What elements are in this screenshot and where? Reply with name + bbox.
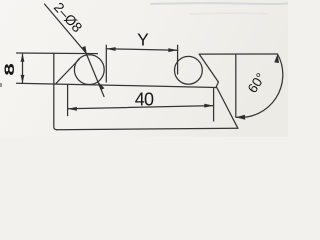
dim Y line	[106, 49, 177, 50]
arrowhead dim 40 left	[68, 107, 77, 111]
bottom edge	[57, 128, 238, 129]
dim 40 extension line right	[213, 89, 215, 122]
scan artifact: left edge tick	[0, 83, 2, 87]
hole circle 2 (right, Ø8)	[175, 56, 203, 84]
dim 40 extension line left	[67, 85, 69, 116]
top edge right segment / 60° leg extension	[199, 53, 277, 55]
dim 40 line	[68, 106, 214, 109]
arrowhead dim 8 down	[21, 75, 25, 83]
scan artifact: grey streak top right	[150, 2, 288, 5]
paper background	[0, 0, 288, 137]
left vertical edge	[54, 53, 57, 130]
svg-text:40: 40	[135, 90, 154, 110]
arrowhead leader lower (on circle 1)	[98, 81, 105, 90]
dim Y extension line right	[177, 45, 179, 74]
diagonal C 60° edge to bottom corner	[217, 88, 238, 129]
mid horizontal line under circles (also ext line of dim 8)	[17, 83, 217, 87]
arrowhead dim Y right	[168, 48, 177, 52]
vertical line through corner (angle extension)	[235, 54, 237, 117]
arrowhead angle arc top	[274, 54, 279, 63]
svg-text:Y: Y	[137, 29, 149, 49]
hole circle 1 (left, Ø8)	[74, 55, 104, 85]
top edge left segment (also ext line of dim 8)	[17, 52, 98, 55]
arrowhead leader upper (on circle 1)	[82, 46, 87, 55]
diagonal A from top-right corner	[199, 54, 218, 82]
leader line 2-Ø8 through circle 1	[45, 4, 105, 97]
svg-text:8: 8	[2, 63, 18, 76]
arrowhead dim 8 up	[21, 53, 25, 61]
dim Y extension line left	[105, 45, 107, 82]
dim 8 line	[22, 53, 24, 83]
arrowhead angle arc bottom	[236, 115, 245, 120]
angle 60° dimension arc	[236, 54, 283, 117]
arrowhead dim 40 right	[204, 104, 213, 108]
tangent line left of circle 1	[56, 59, 79, 83]
arrowhead dim Y left	[106, 47, 115, 51]
notch B	[216, 82, 218, 88]
